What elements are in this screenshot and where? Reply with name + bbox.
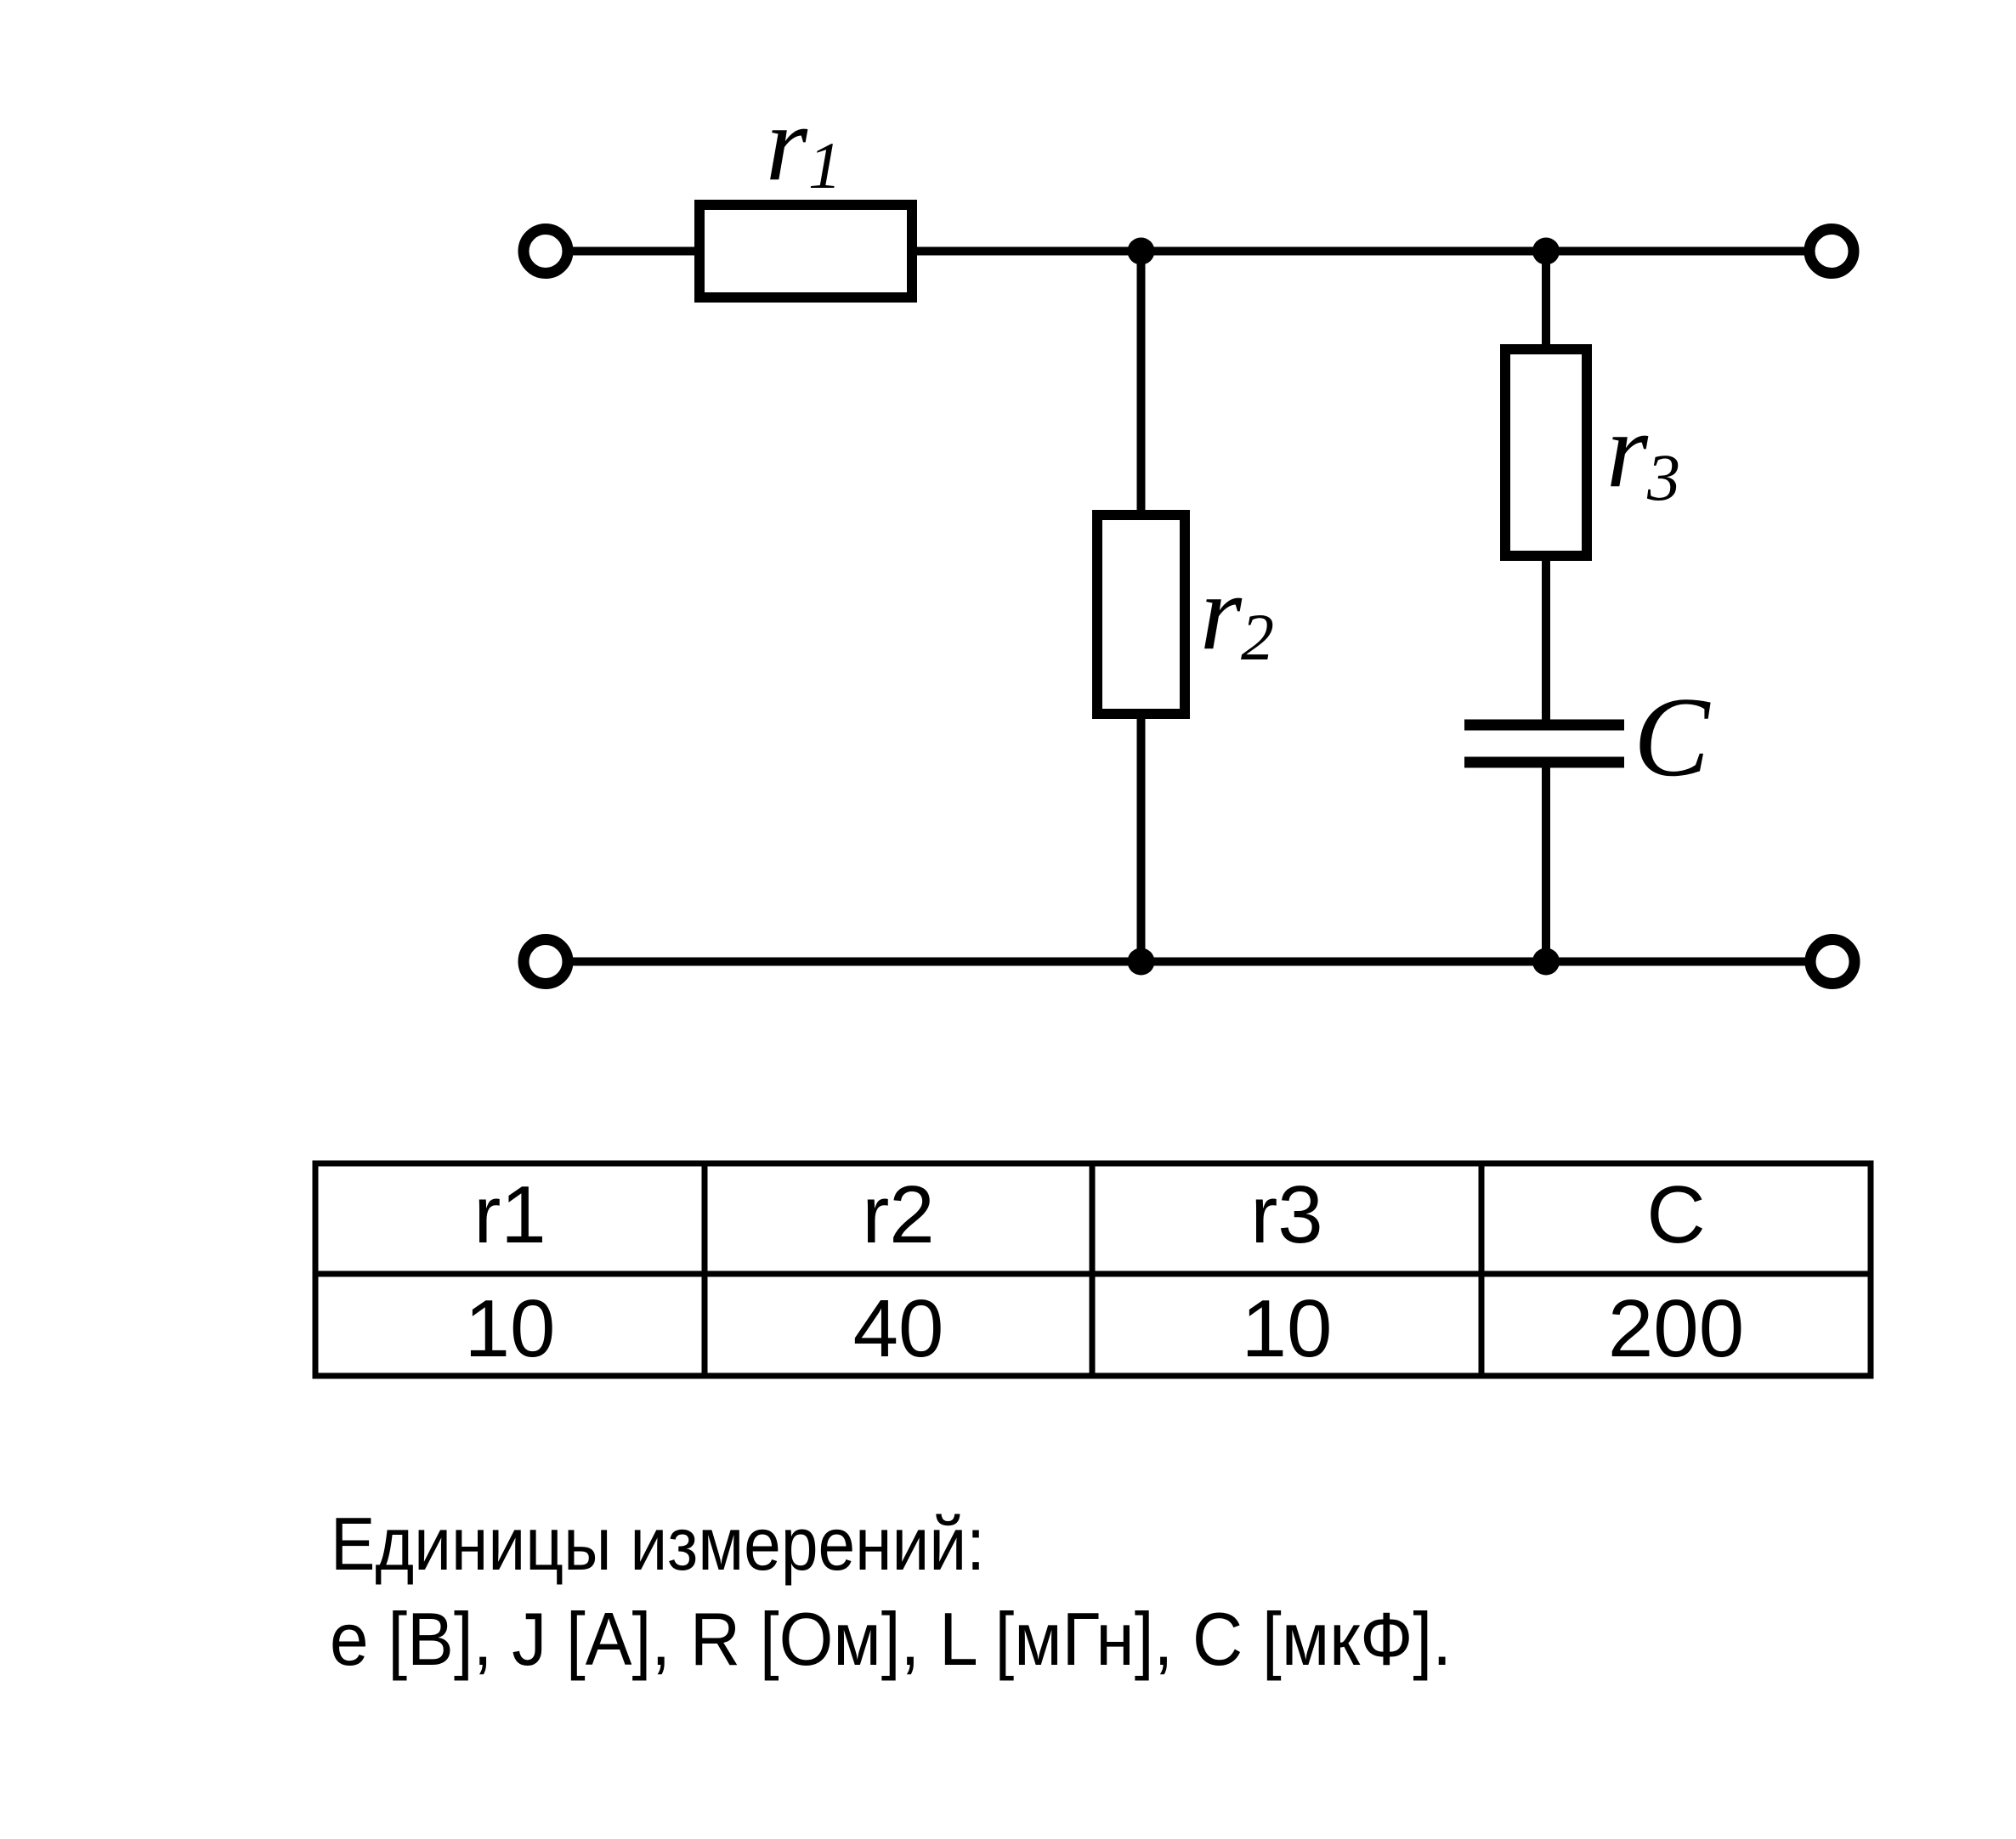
svg-text:r: r [1200,554,1243,672]
svg-text:2: 2 [1241,600,1274,674]
svg-text:r1: r1 [473,1169,546,1260]
svg-text:10: 10 [465,1283,556,1374]
wire: capacitor lower lead [1542,758,1550,962]
svg-text:Единицы измерений:: Единицы измерений: [331,1502,985,1586]
wire: r2 branch (vertical) [1137,252,1146,962]
node: top junction at r2 branch [1128,238,1155,265]
wire: input lead from left terminal to r1 [568,247,705,256]
label r1 [766,85,841,203]
svg-text:r2: r2 [862,1169,934,1260]
terminal: top-left [524,229,568,274]
parameter table: header row [473,1169,1705,1260]
capacitor C [1464,725,1624,762]
wire: bottom bus [568,958,1807,966]
label r2 [1200,554,1274,674]
resistor r3 [1505,349,1587,556]
wire: r3 upper lead [1542,252,1550,730]
terminal: bottom-right [1810,940,1855,984]
node: bottom junction at r2 branch [1128,948,1155,976]
svg-text:e [В], J [А], R [Ом], L [мГн],: e [В], J [А], R [Ом], L [мГн], C [мкФ]. [330,1597,1452,1681]
svg-text:r: r [766,85,808,203]
terminal: bottom-left [524,940,568,984]
node: bottom junction at r3 branch [1532,948,1560,976]
svg-text:200: 200 [1608,1283,1744,1374]
svg-text:1: 1 [808,128,841,202]
svg-text:C: C [1634,674,1711,800]
label r3 [1606,392,1680,514]
svg-text:r: r [1606,392,1649,510]
svg-text:3: 3 [1646,440,1680,514]
resistor r1 [699,205,912,297]
svg-text:10: 10 [1242,1283,1333,1374]
terminal: top-right [1809,229,1854,274]
parameter table: value row [465,1283,1744,1374]
svg-text:C: C [1646,1169,1705,1260]
svg-text:40: 40 [853,1283,944,1374]
wire: top bus from r1 to right terminal [906,247,1806,256]
svg-text:r3: r3 [1250,1169,1322,1260]
parameter table: grid [315,1163,1871,1376]
node: top junction at r3 branch [1532,238,1560,265]
resistor r2 [1097,515,1185,714]
